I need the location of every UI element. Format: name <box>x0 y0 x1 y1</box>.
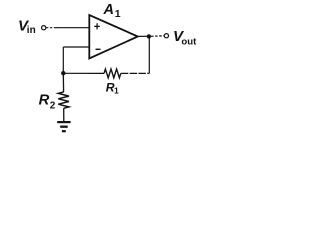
node junction (feedback node) <box>61 71 65 75</box>
resistor R1 <box>104 69 121 78</box>
svg-text:2: 2 <box>50 101 56 112</box>
wire - input horizontal <box>63 46 89 48</box>
input terminal (open circle) <box>42 26 46 30</box>
wire feedback vertical up to output <box>148 36 150 73</box>
svg-text:1: 1 <box>114 86 119 96</box>
op-amp A1 (triangle) <box>89 15 138 59</box>
label R2 <box>39 92 56 111</box>
svg-text:1: 1 <box>115 8 121 20</box>
svg-text:R: R <box>39 92 50 108</box>
svg-text:in: in <box>27 25 36 36</box>
node output junction <box>147 34 151 38</box>
svg-text:out: out <box>181 36 197 47</box>
wire Vin to + input <box>46 27 58 29</box>
wire junction to R2 <box>62 73 64 92</box>
wire - input vertical down <box>62 47 64 73</box>
svg-text:A: A <box>103 2 114 18</box>
pin + (non-inverting input) <box>94 23 100 29</box>
wire R2 to ground <box>63 108 65 121</box>
resistor R2 <box>58 92 69 108</box>
wire junction to R1 <box>63 72 104 74</box>
label Vout <box>173 28 197 47</box>
pin - (inverting input) <box>96 48 101 50</box>
wire op-amp output <box>138 35 151 37</box>
ground <box>57 122 70 131</box>
label A1 <box>103 2 121 20</box>
wire R1 to output branch <box>121 72 150 74</box>
label R1 <box>106 81 119 96</box>
label Vin <box>18 18 36 37</box>
output terminal (open circle) <box>164 34 168 38</box>
